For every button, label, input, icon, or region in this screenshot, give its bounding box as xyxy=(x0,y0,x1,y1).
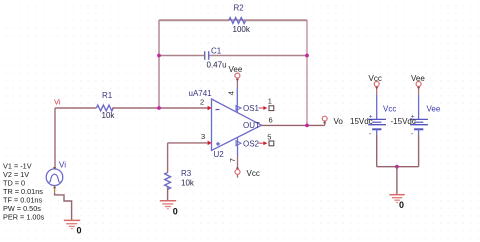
power Vee terminal circle xyxy=(235,73,240,88)
svg-text:10k: 10k xyxy=(181,178,195,187)
parameter text block xyxy=(3,162,45,222)
svg-text:5: 5 xyxy=(267,133,271,142)
svg-text:Vcc: Vcc xyxy=(369,74,382,83)
wire R3 vertical top xyxy=(167,143,169,173)
wire Vi source drop xyxy=(54,108,56,169)
resistor R3 xyxy=(165,173,171,190)
svg-text:1: 1 xyxy=(268,97,272,106)
pin 5 no-connect square xyxy=(269,141,274,146)
wire top feedback horizontal xyxy=(159,19,307,21)
svg-text:R1: R1 xyxy=(102,91,113,100)
junction left C1 node xyxy=(157,54,161,58)
pin OS2 marker xyxy=(236,141,241,146)
op-amp minus sign xyxy=(216,109,220,111)
pin 1 no-connect square xyxy=(269,106,274,111)
svg-text:0: 0 xyxy=(77,226,82,236)
terminal Vo circle xyxy=(322,116,327,125)
voltage source Vi xyxy=(46,169,63,186)
pin arrow battery Vcc xyxy=(375,87,378,90)
svg-text:Vcc: Vcc xyxy=(247,169,260,178)
power Vcc terminal circle xyxy=(235,156,240,178)
battery V- symbol xyxy=(410,95,428,138)
svg-text:Vo: Vo xyxy=(334,117,344,126)
svg-text:R2: R2 xyxy=(234,4,245,13)
svg-text:Vi: Vi xyxy=(54,98,61,107)
wire battery bottoms join xyxy=(377,166,419,168)
svg-text:Vee: Vee xyxy=(427,105,441,114)
svg-text:OS2: OS2 xyxy=(243,139,260,148)
pin arrow Vo circle xyxy=(323,121,326,124)
svg-text:Vi: Vi xyxy=(59,161,66,170)
svg-text:2: 2 xyxy=(200,97,204,106)
capacitor C1 xyxy=(205,51,209,59)
wire R3 to ground xyxy=(167,187,169,200)
wire battery Vee down xyxy=(418,135,420,167)
svg-text:OUT: OUT xyxy=(243,121,260,130)
svg-text:15Vdc: 15Vdc xyxy=(350,117,373,126)
pin OS2 stub and arrow xyxy=(259,141,268,145)
pin arrow source top xyxy=(53,167,56,170)
battery V- Vee circle terminal xyxy=(416,82,421,96)
svg-text:-: - xyxy=(411,131,414,138)
svg-text:C1: C1 xyxy=(211,47,222,56)
svg-text:-15Vdc: -15Vdc xyxy=(391,117,416,126)
svg-text:10k: 10k xyxy=(102,111,116,120)
svg-text:6: 6 xyxy=(269,116,273,125)
pin arrow 2 xyxy=(208,106,212,111)
svg-text:Vee: Vee xyxy=(411,74,425,83)
svg-text:R3: R3 xyxy=(181,169,192,178)
junction input node xyxy=(157,106,161,110)
pin arrow 3 xyxy=(208,141,212,146)
wire source to ground staircase xyxy=(55,193,72,220)
wire output xyxy=(262,124,325,126)
svg-text:7: 7 xyxy=(228,158,237,162)
pin 4 wire Vee xyxy=(236,88,238,112)
wire input horizontal right xyxy=(112,107,208,109)
wire left feedback vertical xyxy=(158,20,160,108)
op-amp U2 uA741 triangle xyxy=(212,99,262,151)
svg-text:3: 3 xyxy=(201,132,205,141)
svg-text:Vcc: Vcc xyxy=(383,105,396,114)
ground 0 under R3 xyxy=(160,201,176,209)
svg-text:0: 0 xyxy=(399,200,404,210)
svg-text:4: 4 xyxy=(227,91,236,95)
svg-text:OS1: OS1 xyxy=(243,104,260,113)
svg-text:0.47u: 0.47u xyxy=(207,61,227,70)
junction output node xyxy=(305,124,309,128)
junction right C1 node xyxy=(305,54,309,58)
junction battery ground node xyxy=(395,165,399,169)
pin arrow Vcc circle xyxy=(236,166,239,169)
op-amp plus sign xyxy=(216,142,220,146)
svg-text:U2: U2 xyxy=(214,150,225,159)
svg-text:0: 0 xyxy=(173,207,178,217)
ground 0 right xyxy=(389,195,404,203)
wire right feedback vertical xyxy=(306,20,308,125)
wire C1 left xyxy=(159,55,204,57)
pin arrow battery Vee xyxy=(417,87,420,90)
svg-text:Vee: Vee xyxy=(229,65,243,74)
wire battery Vcc down xyxy=(376,135,378,167)
pin arrow source bottom xyxy=(53,186,56,189)
wire to right ground xyxy=(396,167,398,195)
svg-text:PER = 1.00s: PER = 1.00s xyxy=(3,213,45,222)
svg-text:100k: 100k xyxy=(233,25,251,34)
pin OS1 marker xyxy=(236,106,241,111)
battery V+ Vcc circle terminal xyxy=(374,82,379,96)
pin OS1 stub and arrow xyxy=(259,106,268,110)
pin stub source bottom xyxy=(54,186,56,193)
resistor R1 xyxy=(96,105,113,111)
ground 0 under source xyxy=(64,220,80,228)
pin 7 wire Vcc xyxy=(237,137,239,156)
pin arrow Vee circle xyxy=(236,79,239,82)
wire C1 right xyxy=(209,55,307,57)
resistor R2 xyxy=(159,18,307,24)
wire pin3 to R3 xyxy=(168,142,208,144)
wire input horizontal left xyxy=(55,107,96,109)
battery V+ symbol xyxy=(368,95,386,138)
svg-text:-: - xyxy=(369,131,372,138)
